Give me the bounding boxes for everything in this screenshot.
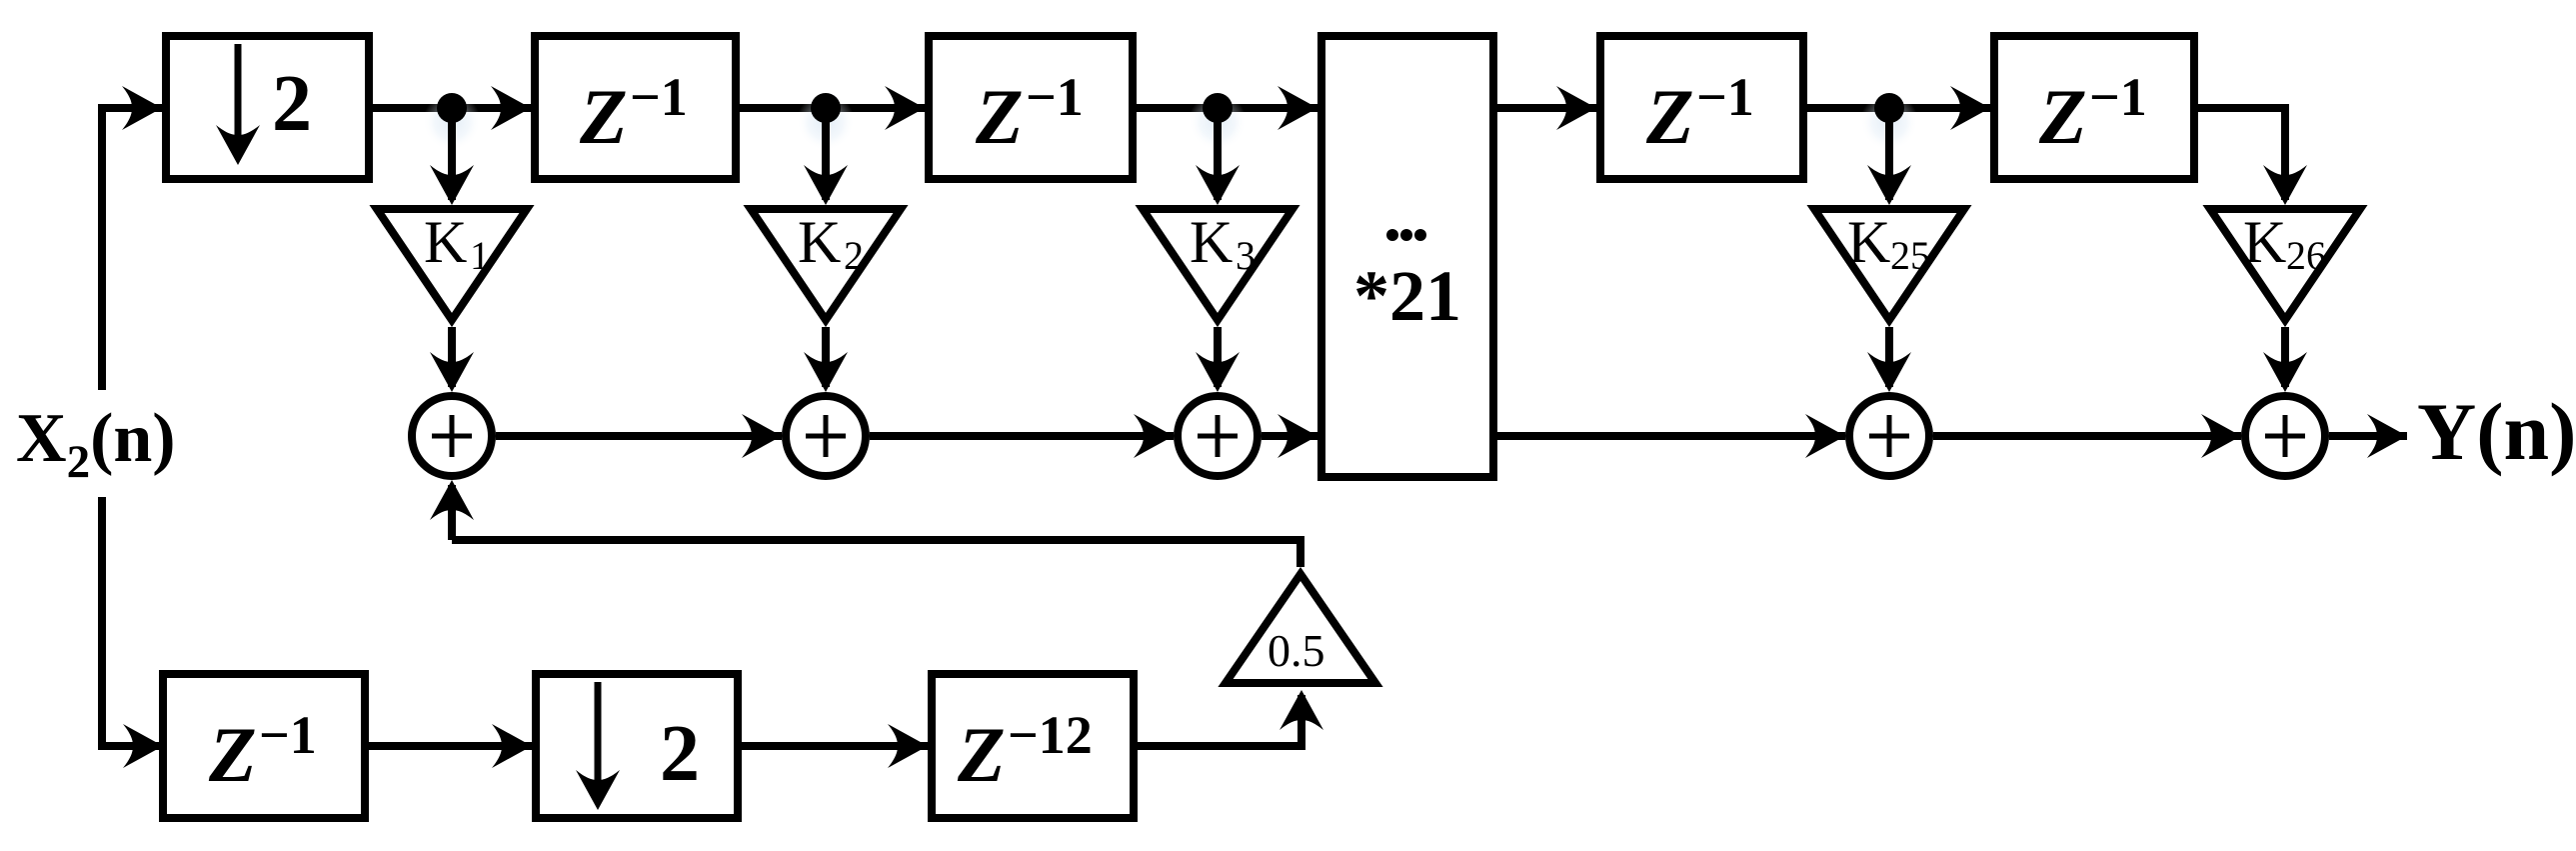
svg-text:K: K [1190, 209, 1233, 275]
delay Z1 box [535, 36, 736, 179]
adder S2 circle [786, 396, 866, 476]
svg-text:Z: Z [975, 73, 1024, 160]
svg-text:1: 1 [470, 233, 490, 278]
multiplier 0.5 triangle [1226, 574, 1375, 683]
svg-text:Z: Z [208, 711, 257, 798]
wire S3 into ellipsis block [1262, 414, 1317, 458]
svg-text:K: K [1847, 209, 1890, 275]
delay Z25 box [1600, 36, 1803, 179]
svg-text:25: 25 [1890, 233, 1930, 278]
wire K1 to adder S1 [430, 327, 474, 392]
node junction J1 [423, 93, 481, 151]
svg-text:K: K [798, 209, 841, 275]
wire J3 down to K3 [1196, 108, 1240, 205]
wire input vertical upper segment [102, 108, 140, 390]
svg-text:2: 2 [660, 710, 700, 798]
multiplier K1 triangle [377, 209, 527, 320]
adder S1 circle [412, 396, 492, 476]
wire ellipsis block to S4 [1497, 414, 1845, 458]
svg-text:−12: −12 [1008, 705, 1093, 765]
svg-text:−1: −1 [259, 705, 317, 765]
svg-text:2: 2 [844, 233, 864, 278]
wire D1 to Z1 [373, 86, 531, 130]
svg-text:−1: −1 [1696, 67, 1754, 127]
svg-text:−1: −1 [2089, 67, 2147, 127]
svg-text:3: 3 [1236, 233, 1256, 278]
delay Z2 box [929, 36, 1133, 179]
svg-text:K: K [2243, 209, 2286, 275]
wire Z25 to Z26 [1807, 86, 1990, 130]
svg-text:Z: Z [1645, 73, 1694, 160]
wire Z1b to decimator D2 [369, 724, 532, 768]
multiplier K3 triangle [1143, 209, 1292, 320]
wire ellipsis block to Z25 [1497, 86, 1596, 130]
decimator D1 box (down-arrow 2) [166, 36, 369, 179]
wire S1 to S2 [496, 414, 782, 458]
wire K2 to adder S2 [804, 327, 848, 392]
svg-text:Z: Z [579, 73, 628, 160]
multiplier K2 triangle [751, 209, 901, 320]
wire Z1 to Z2 [740, 86, 925, 130]
svg-text:0.5: 0.5 [1268, 625, 1325, 676]
node junction J2 [797, 93, 855, 151]
adder S3 circle [1178, 396, 1258, 476]
wire J1 down to K1 [430, 108, 474, 205]
multiplier K25 triangle [1814, 209, 1964, 320]
svg-text:Z: Z [957, 711, 1006, 798]
decimator D2 box (down-arrow 2) [536, 674, 738, 818]
wire feedback from 0.5 multiplier to S1 [430, 480, 1300, 567]
delay Z12 box [932, 674, 1134, 818]
svg-text:Y(n): Y(n) [2417, 386, 2576, 477]
wire Z12 up into 0.5 multiplier [1138, 690, 1323, 746]
svg-text:−1: −1 [630, 67, 688, 127]
multiplier K26 triangle [2210, 209, 2360, 320]
wire K3 to adder S3 [1196, 327, 1240, 392]
delay Z26 box [1994, 36, 2194, 179]
adder S4 circle [1849, 396, 1929, 476]
wire K25 to adder S4 [1867, 327, 1911, 392]
delay Z1b box (bottom branch) [123, 674, 365, 818]
svg-text:−1: −1 [1026, 67, 1084, 127]
node junction J25 [1860, 93, 1918, 151]
wire J25 down to K25 [1867, 108, 1911, 205]
svg-text:2: 2 [272, 60, 312, 148]
svg-text:K: K [424, 209, 467, 275]
ellipsis block *21 tall box [1321, 36, 1493, 477]
wire J2 down to K2 [804, 108, 848, 205]
svg-text:Z: Z [2038, 73, 2087, 160]
svg-text:26: 26 [2286, 233, 2326, 278]
wire K26 to adder S5 [2263, 327, 2307, 392]
svg-text:X2(n): X2(n) [16, 400, 176, 488]
wire Z2 to ellipsis block [1137, 86, 1317, 130]
svg-text:*21: *21 [1353, 256, 1461, 336]
wire S2 to S3 [870, 414, 1174, 458]
wire D2 to Z12 [742, 724, 928, 768]
wire S5 to output [2329, 414, 2407, 458]
wire input vertical lower segment [102, 497, 163, 746]
adder S5 circle [2245, 396, 2325, 476]
wire S4 to S5 [1933, 414, 2241, 458]
wire Z26 output corner down to K26 [2198, 108, 2307, 205]
node junction J3 [1189, 93, 1247, 151]
wire into decimator D1 [122, 86, 162, 130]
